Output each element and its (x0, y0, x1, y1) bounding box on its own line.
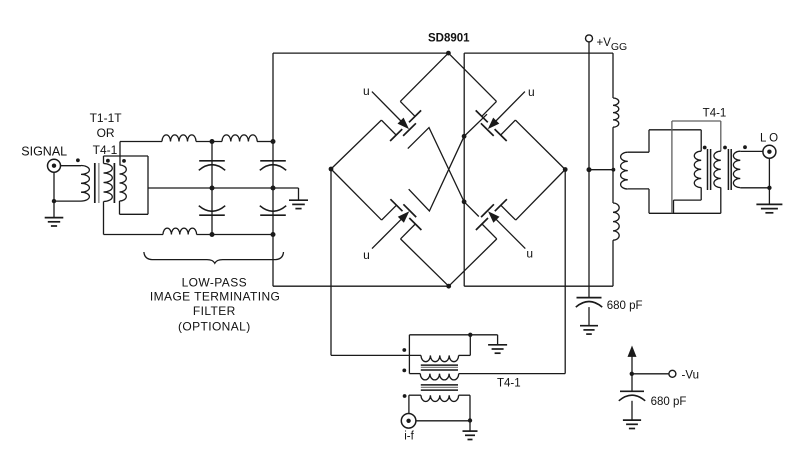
wire ground stub (469, 421, 471, 431)
wire secondary A bottom to bottom rail (103, 202, 105, 235)
ground (i-f) (463, 430, 478, 432)
transformer T2 core lines 2 (727, 149, 729, 190)
wire choke top stub (612, 53, 614, 98)
transformer T3 winding A (IF primary 1) (421, 355, 459, 361)
junction bottom rail box (271, 232, 276, 237)
ground (IF center tap) (488, 344, 507, 346)
transistor Q4 (DMOS quad switch element) (476, 199, 525, 248)
node left (junction) (329, 167, 334, 172)
wire substrate cross 1 (Q1 body to center rail, Q4 body) (408, 128, 479, 217)
svg-text:LOW-PASS: LOW-PASS (182, 276, 247, 290)
svg-text:T4-1: T4-1 (703, 108, 727, 120)
wire IF center-tap bus (409, 334, 497, 336)
junction center rail upper (462, 134, 467, 139)
svg-text:680 pF: 680 pF (651, 396, 687, 408)
junction LO ground (767, 186, 771, 190)
wire IF-C left (409, 394, 421, 396)
junction choke tap (612, 168, 616, 172)
wire to -Vu terminal (632, 373, 669, 375)
junction mid rail C1 (210, 186, 215, 191)
wire LO ground leg (768, 158, 770, 204)
inductor RFC upper (613, 98, 619, 127)
transformer core line 2 (gray) (98, 163, 100, 203)
transformer T2 winding B (714, 151, 721, 187)
ground (VGG bypass) (580, 325, 598, 327)
wire primary bottom (54, 200, 81, 202)
svg-text:-Vu: -Vu (682, 370, 699, 382)
transformer T2 core lines 1 (707, 149, 709, 190)
junction i-f ground (468, 418, 472, 422)
wire edge bottom-right (B to Q4 drain) (449, 239, 497, 286)
wire edge left-upper (Q3 source to L) (331, 169, 382, 220)
svg-text:SD8901: SD8901 (428, 32, 470, 44)
capacitor 680pF (VGG bypass) (577, 297, 602, 299)
wire choke tap (589, 169, 613, 171)
wire IF-B left riser (408, 335, 410, 374)
wire middle rail (center tap) (148, 187, 299, 189)
svg-text:T4-1: T4-1 (497, 378, 521, 390)
transformer T2 winding A (694, 151, 701, 187)
wire center tap ground stub (497, 335, 499, 345)
wire substrate cross 2 (Q2 body to Q3 body) (409, 114, 487, 211)
wire IF-B right to right node (459, 373, 566, 375)
transistor Q1 (DMOS quad switch element) (372, 92, 421, 141)
wire LO primary top (740, 150, 763, 152)
wire drive bottom (628, 188, 649, 190)
wire top rail right (257, 141, 273, 143)
wire top rail mid (196, 141, 222, 143)
node -Vu terminal (669, 370, 676, 377)
wire choke middle (612, 127, 614, 203)
capacitor C1b (199, 214, 225, 216)
svg-text:T4-1: T4-1 (93, 143, 118, 157)
phase dot T2-C (743, 145, 747, 149)
arrow symbol (to gate bias) (628, 346, 637, 357)
junction top rail box (271, 139, 276, 144)
phase dot T2-A (703, 146, 707, 150)
wire IF-C right (459, 394, 470, 396)
svg-text:u: u (363, 84, 370, 98)
svg-text:u: u (526, 247, 533, 261)
wire shunt column 1 (211, 142, 213, 235)
wire signal ground stub (53, 172, 55, 217)
brace (filter group) (144, 252, 284, 263)
node top (junction) (446, 51, 451, 56)
capacitor C2b (260, 214, 286, 216)
transformer T1 secondary winding A (104, 164, 113, 202)
ground (signal) (45, 217, 64, 219)
transformer T1 secondary winding B (120, 165, 127, 201)
wire filter bottom rail (104, 234, 164, 236)
wire left node to IF primary (330, 169, 332, 355)
wire VGG cap to ground (588, 307, 590, 325)
wire edge right-lower (Q4 source to R) (516, 170, 566, 221)
svg-text:FILTER: FILTER (193, 304, 236, 318)
wire secondary B loop bottom (119, 201, 121, 214)
wire edge right-upper (Q2 source to R) (515, 120, 565, 169)
wire center-tap ground stub (298, 188, 300, 200)
svg-text:u: u (363, 248, 370, 262)
phase dot secondary A (106, 159, 110, 163)
wire mixer box left edge (272, 53, 274, 286)
junction VGG choke tap (587, 167, 592, 172)
wire signal to transformer primary (61, 165, 82, 167)
node bottom (junction) (446, 284, 451, 289)
transistor Q3 (DMOS quad switch element) (372, 199, 421, 248)
junction bottom rail C1 (210, 232, 215, 237)
node L.O. connector (763, 145, 776, 158)
svg-text:680 pF: 680 pF (607, 300, 643, 312)
transformer core line 3 (113, 163, 115, 203)
transformer core line 1 (94, 163, 96, 203)
wire edge top-right (T to Q2 drain) (448, 53, 496, 101)
node +VGG terminal (586, 35, 593, 42)
transistor Q2 (DMOS quad switch element) (476, 92, 525, 141)
wire edge left-lower (Q1 source to L) (331, 120, 381, 169)
svg-text:(OPTIONAL): (OPTIONAL) (178, 320, 251, 334)
capacitor C1a (199, 160, 225, 162)
phase dot IF-C (403, 394, 407, 398)
svg-text:T1-1T: T1-1T (90, 111, 123, 125)
ground (filter center tap) (289, 199, 308, 201)
capacitor 680pF (Vu bypass) (620, 390, 644, 392)
junction -Vu (630, 372, 634, 376)
wire riser to filter top rail (119, 142, 121, 166)
winding T2 drive (gate side) (621, 152, 628, 189)
wire T2-B bottom (720, 188, 722, 214)
wire tie line (104, 155, 149, 157)
wire edge bottom-left (B to Q3 drain) (401, 239, 449, 286)
phase dot secondary B (122, 159, 126, 163)
wire IF-A right (459, 354, 471, 356)
wire secondary B loop right side (147, 156, 149, 214)
transformer T2 winding C (LO primary) (733, 151, 740, 187)
junction top rail C1 (210, 139, 215, 144)
wire secondary A top to tie line (103, 156, 105, 164)
wire T2 outer loop (gray) (671, 121, 673, 213)
inductor L2 (222, 135, 257, 142)
ground (Vu bypass) (623, 419, 641, 421)
svg-text:u: u (528, 85, 535, 99)
wire filter top rail (120, 141, 162, 143)
wire VGG rail (588, 42, 590, 297)
wire T2-A bottom loop (700, 188, 702, 201)
node right (junction) (563, 167, 568, 172)
capacitor C2a (260, 160, 286, 162)
transformer T3 winding C (IF secondary) (421, 395, 459, 401)
node i-f connector (401, 414, 416, 429)
wire center vertical rail (463, 53, 465, 286)
node SIGNAL input connector (48, 159, 61, 172)
wire i-f connector to ground (416, 420, 470, 422)
junction IF center tap (468, 333, 472, 337)
wire bottom-right rail (464, 285, 613, 287)
wire Vu cap to ground (631, 401, 633, 420)
phase dot IF-B (402, 369, 406, 373)
wire bottom rail right (197, 234, 273, 236)
wire LO primary bottom (740, 187, 769, 189)
junction mid rail box (271, 186, 276, 191)
transformer T3 core lines 2 (421, 384, 458, 386)
svg-text:SIGNAL: SIGNAL (21, 145, 67, 159)
inductor L3 (163, 228, 197, 234)
ground (L.O.) (756, 203, 782, 205)
phase dot primary (76, 158, 80, 162)
wire mixer box top edge (273, 52, 448, 54)
wire mixer box bottom edge (273, 285, 449, 287)
junction signal/primary (52, 199, 56, 203)
svg-text:L O: L O (760, 133, 778, 145)
transformer T3 core lines 1 (421, 364, 458, 366)
phase dot T2-B (723, 146, 727, 150)
transformer T1 primary winding (81, 166, 89, 202)
wire top-right rail (464, 52, 613, 54)
wire choke bottom stub (612, 240, 614, 286)
phase dot IF-A (402, 348, 406, 352)
junction center rail lower (462, 199, 467, 204)
wire drive top (628, 151, 649, 153)
inductor L1 (162, 135, 196, 142)
svg-text:i-f: i-f (404, 431, 414, 443)
wire edge top-left (T to Q1 drain) (400, 53, 448, 101)
svg-text:IMAGE TERMINATING: IMAGE TERMINATING (150, 290, 280, 304)
inductor RFC lower (613, 203, 619, 240)
transformer T3 winding B (IF primary 2) (420, 374, 458, 380)
svg-text:OR: OR (97, 126, 115, 140)
